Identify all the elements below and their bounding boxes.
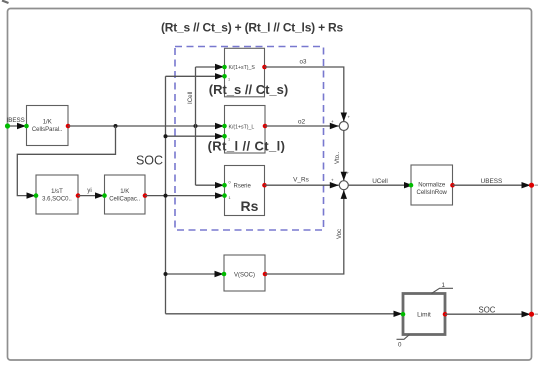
svg-text:+: + xyxy=(348,115,351,120)
net o2 label xyxy=(298,119,306,126)
junction SOC bus at L in1 xyxy=(164,134,168,138)
net Vto label xyxy=(335,151,341,164)
svg-text:Normalize: Normalize xyxy=(418,183,446,189)
wire ICell bus to Rserie in0 xyxy=(196,182,225,188)
node UBESS frame connector xyxy=(529,183,534,188)
svg-text:(Rt_s // Ct_s): (Rt_s // Ct_s) xyxy=(209,82,288,97)
svg-text:Rserie: Rserie xyxy=(234,184,252,190)
svg-text:K/(1+sT)_S: K/(1+sT)_S xyxy=(229,65,256,71)
svg-text:0: 0 xyxy=(398,342,402,349)
svg-text:Vto..: Vto.. xyxy=(335,151,341,164)
svg-text:V_Rs: V_Rs xyxy=(293,177,309,184)
svg-text:Voc: Voc xyxy=(337,229,343,239)
svg-text:IBESS: IBESS xyxy=(7,117,25,124)
wire SOC bus to S in1 xyxy=(166,73,225,79)
svg-text:o2: o2 xyxy=(298,119,306,126)
block Limit xyxy=(401,294,448,335)
wire ICell bus vertical xyxy=(195,67,197,185)
net SOC output label xyxy=(479,306,496,315)
net Voc label xyxy=(337,229,343,239)
corner artifact mark xyxy=(2,1,9,4)
net UBESS label xyxy=(481,178,503,185)
label (Rt_l // Ct_l) xyxy=(208,139,286,154)
svg-text:UCell: UCell xyxy=(372,178,388,185)
svg-text:3.6,SOC0..: 3.6,SOC0.. xyxy=(42,197,72,203)
svg-text:+: + xyxy=(331,119,334,124)
wire SOC bus to L in1 xyxy=(166,133,225,139)
svg-text:1: 1 xyxy=(228,78,230,82)
block V(SOC) xyxy=(222,255,268,291)
wire o2 xyxy=(265,123,339,129)
junction SOC bus at CellCapac output row xyxy=(164,194,168,198)
wire yi xyxy=(78,192,104,198)
wire Voc xyxy=(265,190,347,274)
limit upper bound mark 1 xyxy=(432,282,454,294)
net V_Rs label xyxy=(293,177,309,184)
svg-text:1/sT: 1/sT xyxy=(51,189,63,195)
adder U2 sum Vto+V_Ra+Voc xyxy=(331,171,350,190)
svg-text:Rs: Rs xyxy=(241,198,259,214)
wire IBESS input xyxy=(8,123,27,129)
junction ICell to SOC-integrator branch xyxy=(114,124,118,128)
svg-text:yi: yi xyxy=(87,187,91,194)
wire UCell xyxy=(348,182,413,188)
wire SOC from CellCapac to Rserie in1 xyxy=(145,192,224,198)
wire ICell main row xyxy=(68,123,224,129)
node IBESS frame connector xyxy=(5,123,10,128)
svg-text:SOC: SOC xyxy=(479,306,496,315)
svg-text:SOC: SOC xyxy=(136,154,163,168)
node IBESS label xyxy=(7,117,25,124)
node SOC label xyxy=(136,154,163,168)
svg-text:(Rt_s // Ct_s) + (Rt_l // Ct_l: (Rt_s // Ct_s) + (Rt_l // Ct_ls) + Rs xyxy=(161,21,344,35)
dashed impedance group box xyxy=(175,47,324,231)
wire SOC bus vertical xyxy=(165,76,167,313)
svg-text:K/(1+sT)_L: K/(1+sT)_L xyxy=(229,125,255,131)
svg-text:Limit: Limit xyxy=(417,312,431,319)
block B3 CellCapac 1/K xyxy=(102,175,147,214)
junction ICell to ICell bus xyxy=(194,124,198,128)
wire SOC output xyxy=(445,311,531,317)
net ICell label xyxy=(187,92,194,104)
adder U1 sum o3+o2 xyxy=(331,115,351,131)
limit lower bound mark 0 xyxy=(397,335,410,349)
net yi label xyxy=(87,187,91,194)
wire Vto adder1 to adder2 xyxy=(341,131,347,181)
wire o3 xyxy=(265,67,348,122)
node SOC frame connector xyxy=(529,312,534,317)
junction SOC bus at V(SOC) row xyxy=(164,272,168,276)
wire V_Ra xyxy=(265,182,339,188)
title label xyxy=(161,21,344,35)
svg-text:1: 1 xyxy=(442,282,446,289)
svg-text:+: + xyxy=(331,178,334,183)
block L K/(1+sT)_L xyxy=(222,106,267,154)
svg-text:1/K: 1/K xyxy=(120,189,129,195)
svg-text:+: + xyxy=(347,171,350,176)
svg-text:V(SOC): V(SOC) xyxy=(234,273,255,279)
wire ICell bus to S in0 xyxy=(196,64,225,70)
wire SOC bus to Limit xyxy=(166,311,403,317)
svg-text:1: 1 xyxy=(229,196,231,200)
label Rs xyxy=(241,198,259,214)
wire SOC bus to V(SOC) xyxy=(166,271,224,277)
block B2 integrator 1/sT xyxy=(34,175,81,214)
svg-text:0: 0 xyxy=(229,181,231,185)
block Normalize CellsInRow xyxy=(409,165,455,205)
net o3 label xyxy=(300,59,307,66)
connector stub UBESS xyxy=(535,184,539,186)
svg-text:UBESS: UBESS xyxy=(481,178,503,185)
block R Rserie xyxy=(222,166,267,216)
wire UBESS xyxy=(453,182,532,188)
svg-text:CellsParal..: CellsParal.. xyxy=(32,127,63,133)
connector stub SOC xyxy=(535,313,539,315)
block B1 CellsParal 1/K xyxy=(24,106,70,146)
svg-text:CellCapac..: CellCapac.. xyxy=(109,197,140,203)
svg-text:CellsInRow: CellsInRow xyxy=(417,190,448,196)
block S K/(1+sT)_S xyxy=(222,48,267,97)
svg-text:ICell: ICell xyxy=(187,92,194,104)
label (Rt_s // Ct_s) xyxy=(209,82,288,97)
svg-text:o3: o3 xyxy=(300,59,307,66)
svg-text:(Rt_l // Ct_l): (Rt_l // Ct_l) xyxy=(208,139,286,154)
net UCell label xyxy=(372,178,388,185)
svg-text:1/K: 1/K xyxy=(43,120,52,126)
wire SOC integrator feed xyxy=(17,126,115,199)
